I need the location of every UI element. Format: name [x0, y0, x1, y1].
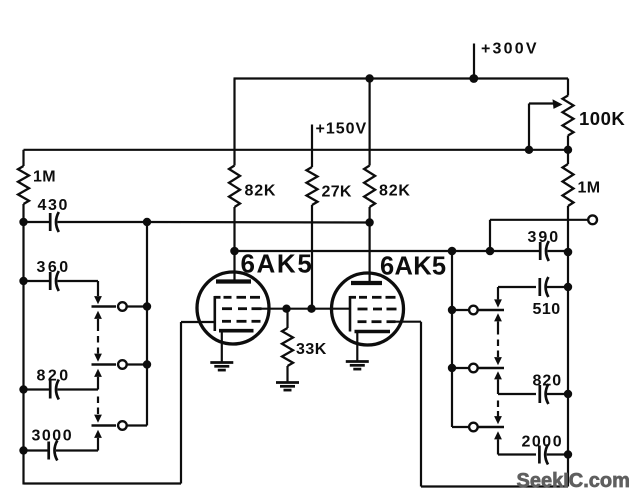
gang link arrow down pos2 (left): [94, 354, 102, 362]
gang link dashes 1-2 (right): [497, 340, 499, 358]
V2 grid g2 dashes (row2): [358, 308, 397, 311]
tube V2 6AK5 envelope: [332, 273, 404, 345]
svg-text:6AK5: 6AK5: [380, 253, 446, 281]
ground (33K): [276, 383, 299, 391]
wire: 390 to right rail: [548, 250, 569, 252]
wire: 430 coupling line y=222 (left of cap): [24, 221, 51, 223]
resistor 33K: [282, 309, 293, 382]
wire: rail to contact2 (right): [452, 367, 469, 369]
wire: 820 wire (left of cap): [24, 388, 51, 390]
capacitor 3000: [49, 441, 58, 461]
terminal (open circle): [588, 215, 597, 224]
resistor 1M (left grid resistor): [18, 150, 29, 204]
label 430: [38, 197, 70, 214]
junction dot B+ / V2 plate branch: [365, 74, 373, 82]
junction dot selector rail pos1: [143, 302, 151, 310]
ground (V2 cathode): [346, 362, 369, 370]
V1 cathode bar: [219, 329, 254, 333]
gang link arrow down pos3 (right): [494, 416, 502, 424]
gang link arrow up pos2 (right): [494, 371, 502, 394]
gang link dashes 1-2 (left): [97, 336, 99, 354]
label 3000: [32, 428, 74, 445]
switch contact bar pos2 (left): [92, 363, 117, 365]
junction dot 430 wire / selector rail: [143, 218, 151, 226]
wire: 2000 to right rail: [547, 453, 568, 455]
svg-text:820: 820: [37, 368, 71, 385]
wire: rail to contact3 (right): [452, 426, 469, 428]
label 6AK5 (left tube): [241, 249, 314, 279]
junction dot 27K bottom: [307, 305, 315, 313]
V2 grid g1 dashes (row1): [350, 296, 396, 299]
svg-text:820: 820: [533, 373, 563, 390]
gang link arrow up pos1 (right): [494, 313, 502, 334]
svg-text:82K: 82K: [379, 183, 411, 200]
svg-text:1M: 1M: [33, 169, 56, 186]
V2 cathode bar: [355, 330, 391, 334]
junction dot left rail / 3000 wire: [19, 446, 27, 454]
resistor 1M (right grid resistor): [563, 150, 574, 487]
junction dot selector rail pos2: [143, 360, 151, 368]
wire: 820 to wiper: [58, 388, 99, 390]
wiper arrow down pos1 (right): [494, 287, 502, 308]
wire: grid-bias bus y=149.8: [24, 149, 569, 151]
wire: V2 cathode lead: [356, 332, 358, 362]
wire: left selector common rail x=147: [146, 222, 148, 426]
junction dot V1 plate / coupling wire: [230, 247, 239, 256]
V2 grid bracket (g1-g3 strap): [349, 296, 352, 332]
gang link arrow up pos3 (right): [494, 431, 502, 454]
wire: screen coupling bus y=308.7: [262, 308, 351, 310]
wiper arrow down pos1 (left): [94, 296, 102, 304]
switch contact circle pos3 (right): [469, 423, 478, 432]
wire: 2000 wire to wiper: [498, 453, 536, 455]
junction dot wiper / bias line: [525, 146, 533, 154]
gang link arrow up pos3 (left): [94, 430, 102, 451]
wire: B+ bus corner down to pot: [567, 79, 569, 96]
junction dot 510 / right rail: [564, 283, 572, 291]
label +150V: [316, 121, 368, 138]
wire: right selector common rail x=452: [451, 251, 453, 427]
svg-text:33K: 33K: [296, 341, 327, 358]
svg-text:360: 360: [37, 259, 71, 276]
gang link arrow up pos1 (left): [94, 311, 102, 331]
wire: 360 to wiper: [58, 281, 99, 296]
label 82K (right): [379, 183, 411, 200]
capacitor 430: [50, 212, 59, 232]
wire: contact1 to rail (left): [127, 305, 147, 307]
wire: +300V supply lead: [473, 44, 475, 79]
wire: coupling line y=250.8 to right: [235, 250, 541, 252]
gang link dashes 2-3 (left): [97, 397, 99, 415]
junction dot right rail pos2: [448, 364, 456, 372]
V1 grid g2 dashes (row2): [222, 307, 262, 310]
label 390: [528, 229, 561, 246]
V2 plate bar: [351, 281, 382, 285]
wire: V1 plate lead: [233, 207, 235, 281]
capacitor 510: [540, 277, 549, 297]
label 820 (right): [533, 373, 563, 390]
label +300V: [481, 41, 539, 58]
capacitor 390: [540, 241, 549, 261]
switch contact bar pos3 (right): [478, 426, 504, 428]
svg-text:82K: 82K: [245, 183, 277, 200]
wire: 360 wire (left of cap): [24, 280, 51, 282]
resistor 82K (V1 plate load): [229, 79, 240, 208]
label 1M (right): [578, 180, 601, 197]
potentiometer 100K body: [563, 96, 574, 151]
junction dot coupling / terminal branch: [486, 247, 495, 256]
svg-text:SeekIC.com: SeekIC.com: [517, 470, 630, 492]
wire: V1 cathode lead: [221, 331, 223, 362]
junction dot right rail pos1: [448, 306, 456, 314]
wire: 27K lead down to screen bus: [311, 205, 313, 309]
V2 grid g3 dashes (row3): [358, 320, 396, 323]
label 360: [37, 259, 71, 276]
wire: V2 plate lead: [369, 207, 371, 283]
wire: rail to contact1 (right): [452, 309, 469, 311]
label 82K (left): [245, 183, 277, 200]
label 100K: [579, 108, 625, 129]
resistor 82K (V2 plate load): [364, 79, 375, 208]
wire: +150V supply lead: [311, 125, 313, 168]
wire: output terminal branch: [490, 220, 588, 251]
label 27K: [322, 184, 352, 201]
gang link arrow down pos2 (right): [494, 357, 502, 365]
junction dot pot bottom / bias line: [564, 146, 572, 154]
label 33K: [296, 341, 327, 358]
wire: left rail below 1M: [22, 204, 24, 485]
wire: 510 to right rail: [547, 286, 568, 288]
gang link arrow up pos2 (left): [94, 369, 102, 390]
wire: 3000 wire (left of cap): [24, 449, 49, 451]
wire: contact2 to rail (left): [127, 363, 147, 365]
wire: 3000 to wiper: [56, 449, 98, 451]
label 820 (left): [37, 368, 71, 385]
wire: V1 grid exit left: [181, 321, 215, 323]
svg-text:6AK5: 6AK5: [241, 249, 314, 279]
V1 grid g1 dashes (row1): [215, 296, 261, 299]
switch contact circle pos2 (right): [469, 364, 478, 373]
wire: contact3 to rail (left): [127, 424, 147, 426]
wire: 820R to right rail: [547, 393, 568, 395]
watermark SeekIC.com: [517, 470, 630, 492]
svg-text:100K: 100K: [579, 108, 625, 129]
pot wiper arrow: [529, 99, 563, 150]
junction dot coupling / right-switch rail: [448, 247, 457, 256]
switch contact circle pos3 (left): [118, 421, 127, 430]
capacitor 820 (right): [540, 384, 549, 404]
ground (V1 cathode): [210, 363, 233, 371]
svg-text:3000: 3000: [32, 428, 74, 445]
capacitor 2000: [539, 445, 548, 465]
switch contact bar pos1 (right): [478, 309, 504, 311]
wire: 430 coupling line to V2 plate: [58, 221, 370, 224]
junction dot left rail / 360 wire: [19, 277, 27, 285]
label 1M (left): [33, 169, 56, 186]
svg-text:1M: 1M: [578, 180, 601, 197]
junction dot 2000 / right rail: [564, 450, 572, 458]
gang link dashes 2-3 (right): [497, 401, 499, 418]
svg-text:+150V: +150V: [316, 121, 368, 138]
V1 grid bracket (g1-g3 strap): [214, 296, 217, 331]
gang link arrow down pos3 (left): [94, 415, 102, 423]
V1 grid g3 dashes (row3): [222, 320, 261, 323]
svg-text:390: 390: [528, 229, 561, 246]
wire: 820R wire to wiper: [498, 393, 536, 395]
label 6AK5 (right tube): [380, 253, 446, 281]
label 2000: [522, 434, 564, 451]
V1 plate bar: [216, 279, 251, 283]
wire: 510 wire to wiper: [498, 286, 536, 288]
capacitor 820 (left): [50, 380, 59, 400]
svg-text:27K: 27K: [322, 184, 352, 201]
switch contact circle pos2 (left): [118, 360, 127, 369]
switch contact circle pos1 (left): [118, 302, 127, 311]
junction dot 390 / right rail: [564, 248, 573, 257]
resistor 27K (screen dropping): [307, 167, 318, 205]
wire: V2 grid return (right L): [421, 322, 568, 487]
svg-text:+300V: +300V: [481, 41, 539, 58]
svg-text:2000: 2000: [522, 434, 564, 451]
wire: V1 grid return (left L): [24, 322, 182, 484]
switch contact circle pos1 (right): [469, 306, 478, 315]
label 510: [533, 301, 561, 318]
junction dot 820R / right rail: [564, 390, 572, 398]
switch contact bar pos1 (left): [92, 305, 117, 307]
tube V1 6AK5 envelope: [197, 272, 269, 344]
capacitor 360: [50, 271, 59, 291]
junction dot left rail / 820 wire: [19, 385, 27, 393]
wire: V2 grid exit right: [396, 321, 422, 323]
svg-text:510: 510: [533, 301, 561, 318]
svg-text:430: 430: [38, 197, 70, 214]
junction dot B+ / +300V: [469, 74, 478, 83]
switch contact bar pos3 (left): [92, 424, 117, 426]
junction dot left rail / 430 wire: [19, 218, 27, 226]
wire: top B+ bus y=78.5: [234, 77, 569, 79]
junction dot 33K top: [282, 305, 290, 313]
junction dot V2 plate / 430 coupling wire: [365, 218, 373, 226]
switch contact bar pos2 (right): [478, 367, 504, 369]
